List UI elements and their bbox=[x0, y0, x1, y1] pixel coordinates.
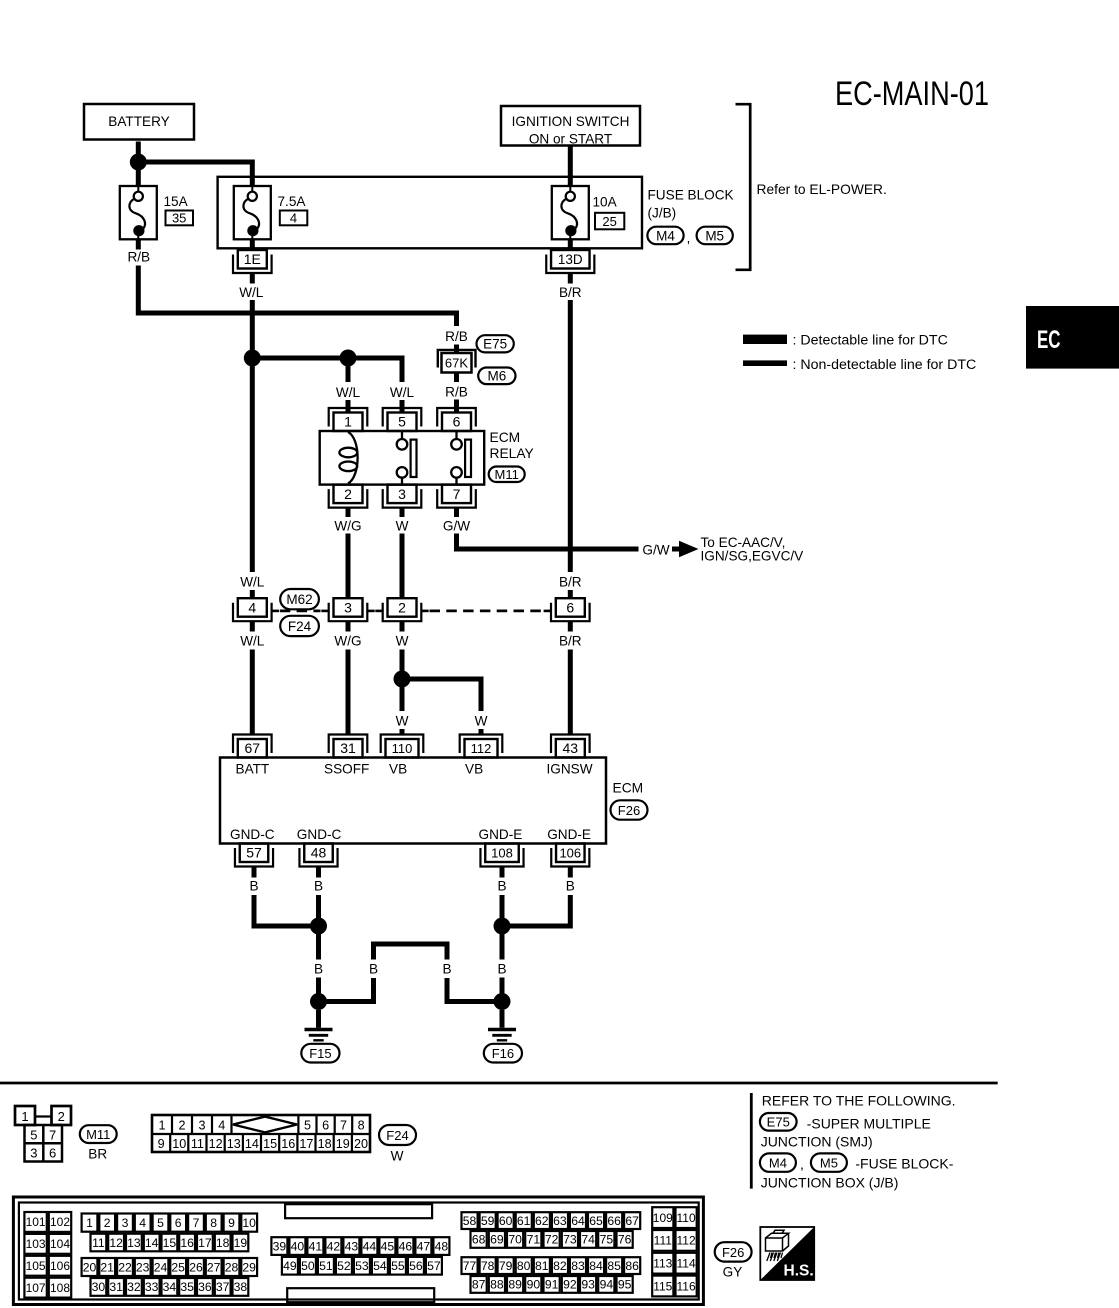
svg-text:116: 116 bbox=[677, 1279, 696, 1293]
ECM pin 31 bbox=[329, 735, 368, 758]
svg-text:57: 57 bbox=[246, 845, 262, 861]
svg-text:4: 4 bbox=[139, 1216, 146, 1230]
svg-text:M5: M5 bbox=[705, 228, 724, 243]
junction node W/L 2 bbox=[340, 350, 357, 367]
junction node W/L 1 bbox=[244, 350, 261, 367]
svg-text:72: 72 bbox=[545, 1233, 559, 1247]
svg-text:W/L: W/L bbox=[336, 385, 361, 400]
svg-text:92: 92 bbox=[563, 1278, 577, 1292]
ECM pin 43 bbox=[551, 735, 590, 758]
svg-text:B: B bbox=[442, 961, 451, 976]
svg-text:38: 38 bbox=[234, 1280, 248, 1294]
svg-text:14: 14 bbox=[245, 1137, 259, 1151]
svg-text:42: 42 bbox=[327, 1239, 341, 1253]
svg-text:B/R: B/R bbox=[559, 285, 582, 300]
fuse number box 25 bbox=[595, 213, 624, 230]
connector M5 footer bbox=[811, 1153, 847, 1171]
label BR bbox=[88, 1147, 107, 1162]
svg-text:1: 1 bbox=[158, 1118, 165, 1132]
wire W/G relay pin 2 to connector 3 bbox=[334, 507, 361, 598]
svg-text:30: 30 bbox=[92, 1280, 106, 1294]
svg-text:82: 82 bbox=[553, 1259, 567, 1273]
wire B ECM 48 to junction A bbox=[314, 867, 323, 927]
svg-text:105: 105 bbox=[26, 1259, 46, 1273]
svg-text:6: 6 bbox=[453, 414, 461, 430]
svg-text:6: 6 bbox=[566, 599, 574, 615]
connector F24 footer bbox=[379, 1125, 416, 1145]
svg-text:2: 2 bbox=[178, 1118, 185, 1132]
fuse 7.5A bbox=[234, 186, 271, 239]
wire junction to fuse 7.5A bbox=[138, 162, 252, 187]
F26 terminal row 58-67 bbox=[462, 1212, 641, 1229]
svg-text:67: 67 bbox=[625, 1214, 639, 1228]
svg-text:: Detectable line for DTC: : Detectable line for DTC bbox=[793, 332, 948, 348]
svg-text:G/W: G/W bbox=[642, 543, 669, 558]
svg-text:3: 3 bbox=[30, 1146, 37, 1161]
svg-text:Refer to EL-POWER.: Refer to EL-POWER. bbox=[757, 182, 887, 197]
H.S. inspection mark bbox=[760, 1227, 814, 1280]
svg-text:85: 85 bbox=[607, 1259, 621, 1273]
note REFER TO THE FOLLOWING bbox=[762, 1093, 956, 1109]
wire B/R 13D to connector 6 bbox=[559, 273, 582, 598]
ignition switch bbox=[501, 106, 640, 147]
svg-text:W/L: W/L bbox=[239, 285, 264, 300]
svg-text:EC-MAIN-01: EC-MAIN-01 bbox=[835, 75, 989, 113]
connector F26 footer bbox=[715, 1242, 752, 1261]
wire B/R connector 6 to ECM 43 bbox=[559, 621, 582, 735]
svg-text:EC: EC bbox=[1037, 326, 1061, 354]
svg-text:106: 106 bbox=[50, 1259, 70, 1273]
svg-text:BATT: BATT bbox=[236, 761, 270, 776]
wire junction to fuse 15A bbox=[136, 162, 141, 187]
wire W/L 1E to junction 1 bbox=[239, 273, 264, 358]
svg-text:28: 28 bbox=[225, 1260, 239, 1274]
svg-text:79: 79 bbox=[499, 1259, 513, 1273]
svg-text:62: 62 bbox=[535, 1214, 549, 1228]
svg-text:110: 110 bbox=[677, 1211, 696, 1225]
wire W relay pin 3 to connector 2 bbox=[396, 507, 409, 598]
svg-text:39: 39 bbox=[273, 1239, 287, 1253]
svg-text:IGN/SG,EGVC/V: IGN/SG,EGVC/V bbox=[701, 549, 804, 564]
svg-text:76: 76 bbox=[618, 1233, 632, 1247]
svg-text:M4: M4 bbox=[656, 228, 675, 243]
label FUSE BLOCK (J/B) bbox=[648, 188, 734, 221]
svg-text:23: 23 bbox=[136, 1260, 150, 1274]
svg-text:65: 65 bbox=[589, 1214, 603, 1228]
svg-text:31: 31 bbox=[340, 740, 356, 756]
svg-text:7.5A: 7.5A bbox=[278, 194, 307, 209]
dashed connector link line bbox=[280, 610, 543, 613]
F26 terminal row 49-57 bbox=[282, 1257, 442, 1275]
svg-text:43: 43 bbox=[345, 1239, 359, 1253]
svg-text:70: 70 bbox=[508, 1233, 522, 1247]
footer divider line bbox=[750, 1093, 753, 1189]
svg-text:110: 110 bbox=[392, 741, 413, 756]
svg-text:67K: 67K bbox=[445, 356, 468, 371]
svg-text:B/R: B/R bbox=[559, 574, 582, 589]
junction node ground D bbox=[494, 993, 511, 1010]
svg-text:63: 63 bbox=[553, 1214, 567, 1228]
svg-text:15A: 15A bbox=[164, 194, 189, 209]
connector 1E bbox=[233, 250, 272, 273]
svg-text:R/B: R/B bbox=[127, 250, 150, 265]
label To EC-AAC/V IGN/SG EGVC/V bbox=[701, 535, 804, 564]
svg-text:W: W bbox=[396, 518, 409, 533]
svg-text:FUSE BLOCK: FUSE BLOCK bbox=[648, 188, 734, 203]
svg-text:81: 81 bbox=[535, 1259, 549, 1273]
svg-text:17: 17 bbox=[198, 1236, 212, 1250]
wire W/L junction1 to connector 4 bbox=[240, 358, 265, 598]
svg-text:W/G: W/G bbox=[334, 518, 361, 533]
svg-text:112: 112 bbox=[677, 1234, 696, 1248]
svg-text:5: 5 bbox=[157, 1216, 164, 1230]
svg-text:78: 78 bbox=[481, 1259, 495, 1273]
svg-text:G/W: G/W bbox=[443, 518, 470, 533]
svg-text:E75: E75 bbox=[767, 1115, 790, 1130]
connector M4 bbox=[647, 227, 690, 246]
connector M5 bbox=[697, 227, 733, 245]
svg-text:36: 36 bbox=[198, 1280, 212, 1294]
svg-text:BR: BR bbox=[88, 1147, 107, 1162]
svg-text:JUNCTION BOX (J/B): JUNCTION BOX (J/B) bbox=[761, 1174, 899, 1190]
svg-text:75: 75 bbox=[600, 1233, 614, 1247]
svg-text:32: 32 bbox=[127, 1280, 141, 1294]
ECM pin 106 bbox=[551, 844, 589, 867]
svg-text:JUNCTION (SMJ): JUNCTION (SMJ) bbox=[761, 1134, 873, 1150]
wire W junction to ECM 112 bbox=[402, 679, 488, 734]
svg-text:48: 48 bbox=[311, 845, 327, 861]
connector F24 oval bbox=[280, 616, 319, 636]
svg-text:ON or START: ON or START bbox=[529, 132, 612, 147]
EC section tab bbox=[1026, 306, 1119, 369]
svg-text:6: 6 bbox=[322, 1118, 329, 1132]
svg-text:107: 107 bbox=[26, 1281, 46, 1295]
junction node ground C bbox=[494, 918, 511, 935]
svg-text:W/L: W/L bbox=[390, 385, 415, 400]
svg-text:B: B bbox=[566, 878, 575, 893]
svg-text:W: W bbox=[396, 634, 409, 649]
svg-text:M11: M11 bbox=[495, 467, 519, 482]
svg-text:B: B bbox=[369, 961, 378, 976]
svg-text:29: 29 bbox=[242, 1260, 256, 1274]
svg-text:W: W bbox=[475, 714, 488, 729]
svg-text:F24: F24 bbox=[386, 1128, 408, 1143]
svg-text:114: 114 bbox=[677, 1257, 696, 1271]
fuse 10A bbox=[552, 186, 589, 239]
svg-text:41: 41 bbox=[309, 1239, 323, 1253]
svg-text:4: 4 bbox=[248, 599, 256, 615]
connector E75 bbox=[477, 335, 514, 352]
svg-text:7: 7 bbox=[340, 1118, 347, 1132]
svg-text:ECM: ECM bbox=[613, 781, 644, 796]
svg-text:M62: M62 bbox=[286, 592, 312, 607]
svg-text:11: 11 bbox=[92, 1236, 105, 1250]
wire B junction C to junction D bbox=[497, 926, 506, 1002]
wire B ECM 57 to junction A bbox=[249, 867, 318, 927]
svg-text:13D: 13D bbox=[558, 252, 583, 267]
svg-text:102: 102 bbox=[50, 1215, 70, 1229]
svg-text:22: 22 bbox=[118, 1260, 132, 1274]
ECM pin 112 bbox=[460, 735, 503, 758]
connector M4 footer bbox=[760, 1153, 804, 1172]
wire B ECM 108 to junction C bbox=[497, 867, 506, 927]
junction node battery feed bbox=[130, 154, 147, 171]
svg-text:GND-C: GND-C bbox=[230, 827, 275, 842]
svg-text:60: 60 bbox=[499, 1214, 513, 1228]
svg-text:10: 10 bbox=[242, 1216, 256, 1230]
wire B ECM 106 to junction C bbox=[502, 867, 575, 927]
svg-text:SSOFF: SSOFF bbox=[324, 761, 369, 776]
svg-text:93: 93 bbox=[581, 1278, 595, 1292]
note SUPER MULTIPLE JUNCTION bbox=[761, 1115, 931, 1149]
svg-text:33: 33 bbox=[145, 1280, 159, 1294]
F26 terminal row 68-76 bbox=[471, 1231, 633, 1248]
svg-text:B: B bbox=[497, 961, 506, 976]
svg-text:E75: E75 bbox=[483, 337, 507, 352]
wire battery to junction bbox=[136, 142, 141, 159]
connector 2 (M62/F24) bbox=[375, 598, 428, 621]
F26 terminal row 11-19 bbox=[91, 1234, 249, 1252]
svg-text:5: 5 bbox=[30, 1128, 37, 1143]
svg-text:14: 14 bbox=[145, 1236, 159, 1250]
svg-text:2: 2 bbox=[58, 1109, 65, 1124]
F26 terminal row 20-29 bbox=[82, 1258, 258, 1276]
svg-text:2: 2 bbox=[104, 1216, 111, 1230]
svg-text:80: 80 bbox=[517, 1259, 531, 1273]
wire W/L junction2 to relay pin 1 bbox=[336, 358, 361, 413]
svg-text:3: 3 bbox=[344, 599, 352, 615]
svg-text:20: 20 bbox=[354, 1137, 368, 1151]
svg-text:108: 108 bbox=[50, 1281, 70, 1295]
relay pin 6 bbox=[437, 408, 476, 431]
connector view M11 bbox=[15, 1106, 71, 1162]
svg-text:17: 17 bbox=[299, 1137, 313, 1151]
svg-text:56: 56 bbox=[409, 1259, 423, 1273]
battery bbox=[84, 104, 194, 140]
junction node ground A bbox=[310, 918, 327, 935]
svg-text:B: B bbox=[249, 878, 258, 893]
svg-text:106: 106 bbox=[559, 846, 581, 861]
svg-text:: Non-detectable line for DTC: : Non-detectable line for DTC bbox=[793, 357, 977, 373]
svg-text:F16: F16 bbox=[492, 1046, 514, 1061]
svg-text:W/G: W/G bbox=[334, 634, 361, 649]
svg-text:(J/B): (J/B) bbox=[648, 206, 677, 221]
wire B junction A to junction B bbox=[314, 926, 323, 1002]
svg-text:101: 101 bbox=[26, 1215, 46, 1229]
svg-text:51: 51 bbox=[319, 1259, 333, 1273]
connector 6 (M62/F24) bbox=[544, 598, 590, 621]
svg-text:B/R: B/R bbox=[559, 634, 582, 649]
wire R/B fuse 15A to SMJ bbox=[127, 239, 467, 353]
svg-text:40: 40 bbox=[291, 1239, 305, 1253]
svg-text:71: 71 bbox=[527, 1233, 541, 1247]
svg-text:49: 49 bbox=[283, 1259, 297, 1273]
svg-text:46: 46 bbox=[399, 1239, 413, 1253]
svg-text:2: 2 bbox=[398, 599, 406, 615]
svg-text:F26: F26 bbox=[722, 1245, 744, 1260]
wire B bridge junction B to junction D bbox=[319, 944, 503, 1002]
relay pin 5 bbox=[383, 408, 422, 431]
F26 terminal row 1-10 bbox=[82, 1214, 258, 1232]
svg-text:25: 25 bbox=[171, 1260, 185, 1274]
wire fuse 7.5A to 1E bbox=[250, 239, 255, 250]
wire W/G connector 3 to ECM 31 bbox=[334, 621, 361, 735]
svg-text:13: 13 bbox=[227, 1137, 241, 1151]
label ECM RELAY bbox=[490, 430, 534, 461]
svg-text:IGNSW: IGNSW bbox=[547, 761, 593, 776]
relay coil bbox=[339, 432, 357, 484]
wire W/L connector 4 to ECM 67 bbox=[240, 621, 265, 735]
ground F16 symbol bbox=[488, 1030, 516, 1041]
F26 terminal grid 109-116 bbox=[652, 1207, 697, 1296]
svg-text:5: 5 bbox=[398, 414, 406, 430]
relay pin 1 bbox=[329, 408, 368, 431]
svg-text:45: 45 bbox=[381, 1239, 395, 1253]
label ECM bbox=[613, 781, 644, 796]
svg-text:31: 31 bbox=[109, 1280, 123, 1294]
wire G/W relay pin 7 to EC-AAC/V bbox=[443, 507, 680, 557]
svg-text:19: 19 bbox=[336, 1137, 350, 1151]
svg-text:94: 94 bbox=[600, 1278, 614, 1292]
svg-text:VB: VB bbox=[389, 761, 407, 776]
relay contact 5-3 bbox=[397, 431, 417, 485]
svg-text:21: 21 bbox=[100, 1260, 114, 1274]
svg-text:9: 9 bbox=[228, 1216, 235, 1230]
connector 67K (SMJ) bbox=[438, 350, 476, 373]
wire fuse 10A to 13D bbox=[568, 239, 573, 250]
svg-text:12: 12 bbox=[209, 1137, 223, 1151]
svg-text:1E: 1E bbox=[244, 251, 261, 267]
connector 3 (M62/F24) bbox=[321, 598, 374, 621]
svg-text:18: 18 bbox=[318, 1137, 332, 1151]
wire ignition switch to fuse 10A bbox=[568, 146, 573, 187]
svg-text:4: 4 bbox=[290, 211, 297, 226]
svg-text:18: 18 bbox=[216, 1236, 230, 1250]
svg-text:2: 2 bbox=[344, 486, 352, 502]
wire W/L junction1 to junction2 bbox=[252, 356, 348, 361]
F26 terminal row 77-86 bbox=[462, 1257, 641, 1274]
note FUSE BLOCK JUNCTION BOX bbox=[761, 1156, 954, 1191]
svg-text:B: B bbox=[314, 961, 323, 976]
ECM pin 57 bbox=[235, 844, 273, 867]
ground F15 symbol bbox=[305, 1030, 333, 1041]
svg-text:91: 91 bbox=[545, 1278, 559, 1292]
svg-text:W/L: W/L bbox=[240, 634, 265, 649]
connector M6 bbox=[478, 368, 515, 385]
footer separator line bbox=[0, 1082, 998, 1085]
svg-text:9: 9 bbox=[158, 1137, 165, 1151]
F26 terminal row 39-48 bbox=[271, 1237, 449, 1255]
svg-text:20: 20 bbox=[83, 1260, 97, 1274]
legend non-detectable line bbox=[743, 357, 976, 373]
svg-text:4: 4 bbox=[218, 1118, 225, 1132]
svg-text:M5: M5 bbox=[820, 1156, 838, 1171]
svg-text:59: 59 bbox=[481, 1214, 495, 1228]
svg-text:15: 15 bbox=[263, 1137, 277, 1151]
svg-text:BATTERY: BATTERY bbox=[108, 114, 169, 129]
ECM relay outline bbox=[320, 431, 485, 485]
svg-text:53: 53 bbox=[355, 1259, 369, 1273]
svg-text:M4: M4 bbox=[769, 1156, 787, 1171]
svg-text:VB: VB bbox=[465, 761, 483, 776]
svg-text:58: 58 bbox=[463, 1214, 477, 1228]
svg-text:68: 68 bbox=[472, 1233, 486, 1247]
ECM pin 67 bbox=[233, 735, 272, 758]
svg-text:11: 11 bbox=[191, 1137, 204, 1151]
svg-text:13: 13 bbox=[127, 1236, 141, 1250]
legend detectable line bbox=[743, 332, 948, 348]
fuse block (J/B) outline bbox=[218, 177, 642, 249]
ECM pin 108 bbox=[480, 844, 523, 867]
svg-text:16: 16 bbox=[281, 1137, 295, 1151]
svg-text:48: 48 bbox=[435, 1239, 449, 1253]
svg-text:35: 35 bbox=[180, 1280, 194, 1294]
wire W/L junction2 to relay pin 5 bbox=[348, 358, 415, 413]
svg-text:R/B: R/B bbox=[445, 329, 468, 344]
svg-text:7: 7 bbox=[193, 1216, 200, 1230]
title EC-MAIN-01 bbox=[835, 75, 989, 113]
svg-text:M6: M6 bbox=[487, 369, 506, 384]
svg-text:111: 111 bbox=[654, 1234, 673, 1248]
connector E75 footer bbox=[760, 1113, 797, 1131]
svg-text:M11: M11 bbox=[86, 1127, 110, 1142]
svg-text:37: 37 bbox=[216, 1280, 230, 1294]
svg-text:GND-E: GND-E bbox=[547, 827, 591, 842]
svg-text:F15: F15 bbox=[309, 1046, 331, 1061]
svg-text:6: 6 bbox=[49, 1146, 56, 1161]
svg-text:W: W bbox=[396, 714, 409, 729]
svg-text:1: 1 bbox=[344, 414, 352, 430]
svg-text:H.S.: H.S. bbox=[784, 1262, 814, 1279]
svg-text:16: 16 bbox=[180, 1236, 194, 1250]
junction node ground B bbox=[310, 993, 327, 1010]
svg-text:69: 69 bbox=[490, 1233, 504, 1247]
svg-text:88: 88 bbox=[490, 1278, 504, 1292]
svg-text:73: 73 bbox=[563, 1233, 577, 1247]
svg-text:-FUSE BLOCK-: -FUSE BLOCK- bbox=[855, 1156, 953, 1172]
svg-text:103: 103 bbox=[26, 1237, 46, 1251]
note Refer to EL-POWER bbox=[757, 182, 887, 197]
svg-text:26: 26 bbox=[189, 1260, 203, 1274]
svg-text:113: 113 bbox=[653, 1257, 672, 1271]
svg-text:8: 8 bbox=[210, 1216, 217, 1230]
svg-text:1: 1 bbox=[86, 1216, 93, 1230]
svg-text:3: 3 bbox=[198, 1118, 205, 1132]
svg-text:25: 25 bbox=[602, 214, 616, 229]
svg-text:84: 84 bbox=[589, 1259, 603, 1273]
wire junction D to ground F16 bbox=[500, 1010, 505, 1028]
svg-text:10: 10 bbox=[172, 1137, 186, 1151]
svg-text:19: 19 bbox=[234, 1236, 248, 1250]
svg-text:104: 104 bbox=[50, 1237, 70, 1251]
svg-text:,: , bbox=[687, 230, 691, 246]
svg-text:87: 87 bbox=[472, 1278, 486, 1292]
connector M62 bbox=[280, 589, 319, 609]
svg-text:109: 109 bbox=[653, 1211, 673, 1225]
relay pin 7 bbox=[437, 485, 476, 508]
svg-text:86: 86 bbox=[625, 1259, 639, 1273]
F26 terminal grid 101-108 bbox=[24, 1212, 71, 1298]
label 10A bbox=[593, 195, 618, 210]
svg-text:66: 66 bbox=[607, 1214, 621, 1228]
svg-text:3: 3 bbox=[122, 1216, 129, 1230]
svg-text:GY: GY bbox=[723, 1265, 743, 1280]
svg-text:90: 90 bbox=[527, 1278, 541, 1292]
F26 terminal row 30-38 bbox=[91, 1278, 249, 1296]
svg-text:12: 12 bbox=[109, 1236, 123, 1250]
connector 4 (M62/F24) bbox=[233, 598, 279, 621]
svg-text:W/L: W/L bbox=[240, 574, 265, 589]
